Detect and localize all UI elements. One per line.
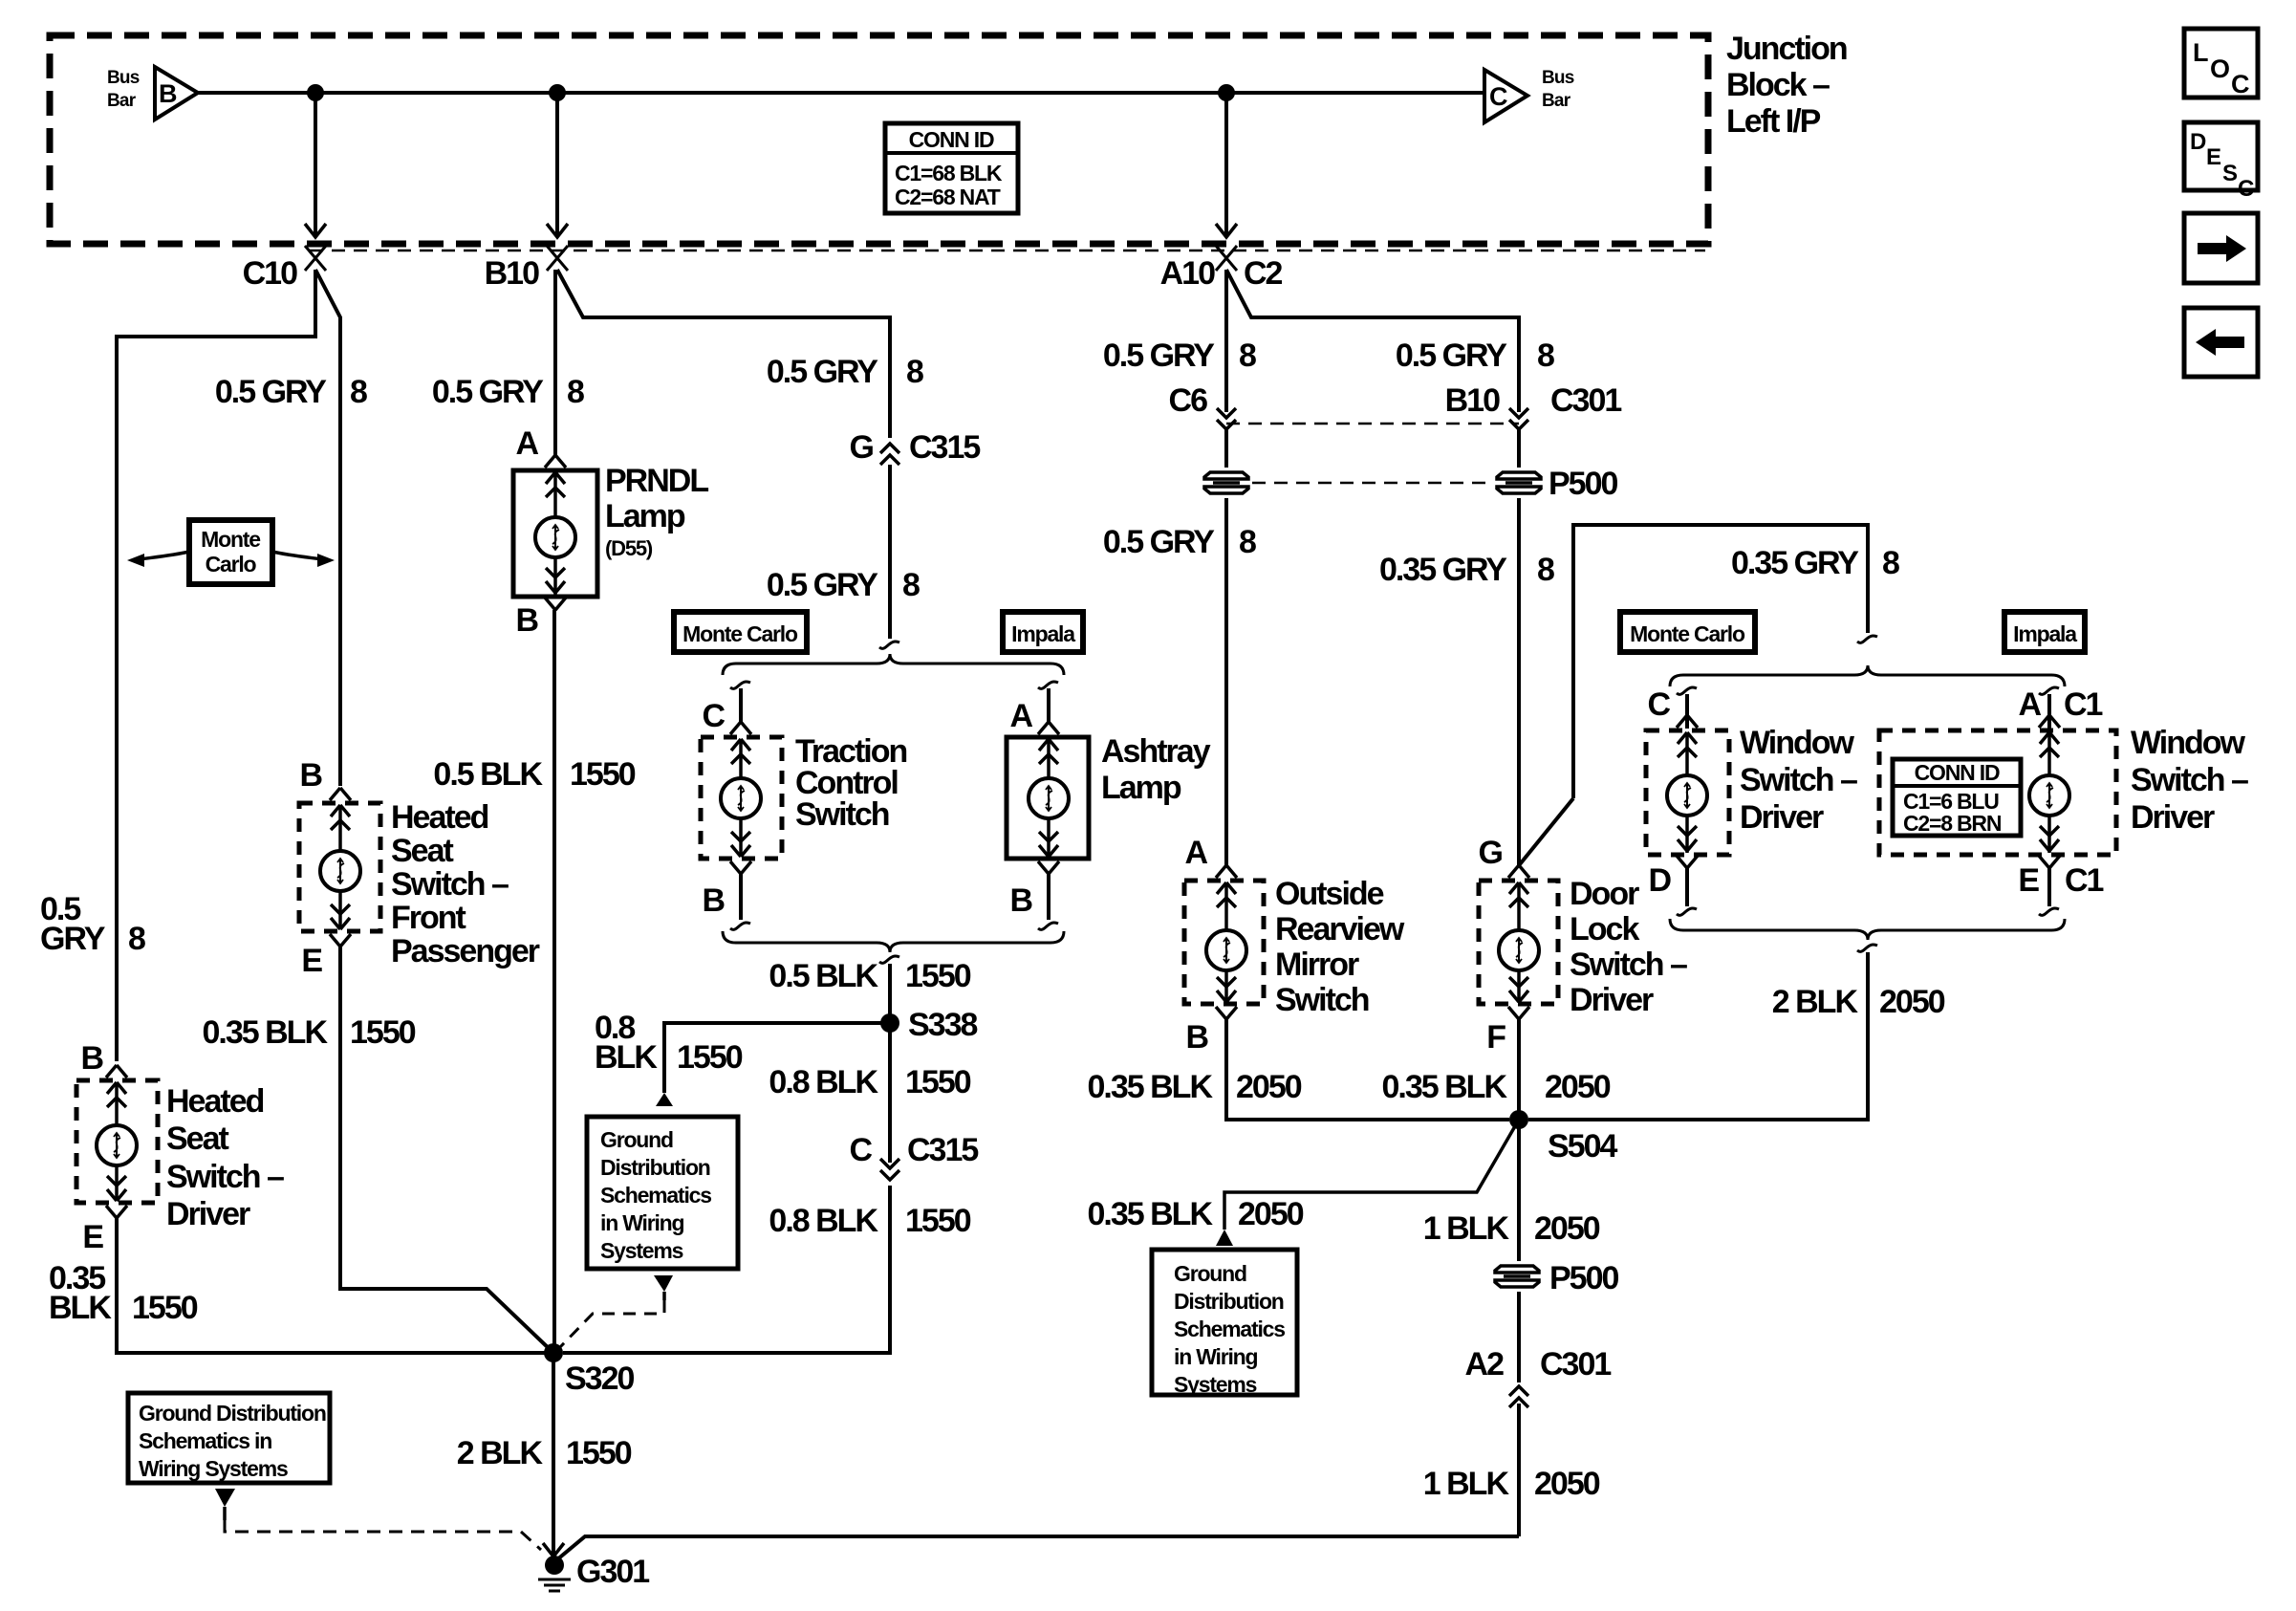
wire B10 connector to lamp	[553, 270, 557, 455]
svg-text:8: 8	[1239, 524, 1256, 560]
svg-text:Switch: Switch	[795, 796, 889, 833]
svg-text:Bar: Bar	[1542, 91, 1571, 111]
svg-text:Monte: Monte	[201, 527, 260, 552]
wire inside top	[338, 805, 342, 851]
svg-text:Monte Carlo: Monte Carlo	[1630, 621, 1745, 646]
svg-text:Window: Window	[1740, 725, 1855, 761]
svg-text:1550: 1550	[677, 1039, 743, 1076]
heated seat switch driver dashed box	[76, 1080, 158, 1203]
PRNDL lamp box	[513, 470, 597, 597]
svg-text:Driver: Driver	[166, 1196, 250, 1232]
ground distribution schematics box (right)	[1152, 1250, 1297, 1397]
junction dot C10 drop	[307, 84, 324, 101]
lamp circle	[1499, 930, 1539, 970]
wire diagonal C10 to front passenger branch	[315, 270, 340, 786]
lamp circle	[320, 851, 360, 891]
lamp circle	[1206, 930, 1246, 970]
lamp circle	[97, 1125, 137, 1165]
svg-text:A: A	[1184, 835, 1207, 871]
forward arrow icon	[2184, 213, 2258, 283]
wire brace to S504 run	[1528, 952, 1868, 1120]
svg-text:8: 8	[1537, 337, 1554, 374]
svg-text:B: B	[80, 1040, 103, 1077]
wire E down to brace	[2047, 868, 2051, 906]
svg-text:Systems: Systems	[600, 1238, 683, 1263]
Impala flag	[2004, 612, 2085, 652]
svg-text:Left I/P: Left I/P	[1726, 103, 1821, 140]
svg-text:C: C	[702, 698, 725, 734]
bus bar terminal C	[1484, 70, 1527, 122]
svg-text:0.8 BLK: 0.8 BLK	[769, 1064, 878, 1100]
svg-text:Systems: Systems	[1174, 1372, 1257, 1397]
svg-text:Switch –: Switch –	[1740, 762, 1857, 798]
svg-text:C6: C6	[1169, 382, 1208, 419]
svg-text:1550: 1550	[905, 958, 971, 994]
wire B down to S320	[552, 610, 556, 1353]
svg-text:GRY: GRY	[40, 921, 106, 957]
svg-text:B: B	[299, 757, 322, 794]
svg-text:Distribution: Distribution	[600, 1155, 710, 1180]
svg-text:Seat: Seat	[391, 833, 453, 869]
svg-text:F: F	[1486, 1019, 1505, 1056]
merge brace bottom	[1670, 919, 2065, 940]
svg-text:Driver: Driver	[1570, 982, 1654, 1018]
wire P500 to mirror switch	[1224, 498, 1228, 866]
svg-text:0.5 BLK: 0.5 BLK	[433, 756, 543, 793]
svg-text:0.5 GRY: 0.5 GRY	[432, 374, 544, 410]
diagonal into pin G	[1520, 798, 1573, 864]
svg-text:0.35 GRY: 0.35 GRY	[1379, 552, 1507, 588]
junction block dashed outline	[50, 35, 1708, 244]
wire to pin C	[730, 682, 750, 688]
Monte Carlo flag	[674, 612, 807, 652]
svg-text:0.5 GRY: 0.5 GRY	[1103, 524, 1215, 560]
svg-text:0.5 BLK: 0.5 BLK	[769, 958, 878, 994]
svg-text:2050: 2050	[1534, 1466, 1600, 1502]
svg-text:8: 8	[128, 921, 145, 957]
wire E down to S320	[117, 1218, 545, 1353]
ground G301	[545, 1556, 564, 1575]
connector B10	[547, 246, 568, 271]
LOC icon	[2184, 29, 2258, 98]
wire to pin A	[1038, 682, 1058, 688]
svg-text:A: A	[515, 425, 538, 462]
wire C301 down to G301 corner	[1517, 1404, 1521, 1536]
svg-text:C: C	[1647, 686, 1670, 723]
svg-text:1550: 1550	[350, 1014, 416, 1051]
Impala flag	[1003, 612, 1083, 652]
svg-text:C1: C1	[2065, 862, 2104, 899]
svg-text:Carlo: Carlo	[206, 552, 257, 577]
svg-text:S320: S320	[565, 1361, 634, 1397]
svg-text:B10: B10	[485, 255, 539, 292]
svg-text:C2=68 NAT: C2=68 NAT	[895, 185, 1001, 209]
lamp circle	[2029, 775, 2069, 816]
svg-text:B: B	[1009, 882, 1032, 919]
svg-text:8: 8	[567, 374, 584, 410]
svg-text:8: 8	[1882, 545, 1899, 581]
ground distribution schematics box (bottom left)	[128, 1393, 330, 1483]
svg-text:in Wiring: in Wiring	[1174, 1344, 1258, 1369]
svg-text:Rearview: Rearview	[1275, 911, 1405, 947]
svg-text:(D55): (D55)	[605, 536, 653, 560]
svg-text:P500: P500	[1549, 1260, 1618, 1296]
svg-text:S: S	[2222, 161, 2238, 186]
svg-text:0.35 BLK: 0.35 BLK	[203, 1014, 329, 1051]
svg-text:O: O	[2210, 54, 2229, 83]
wire B down to brace	[1047, 874, 1051, 920]
svg-text:C1: C1	[2064, 686, 2103, 723]
connector face dashed line	[310, 250, 1705, 252]
svg-text:1550: 1550	[132, 1290, 198, 1326]
CONN ID table (window switch)	[1893, 759, 2021, 836]
svg-text:0.35 BLK: 0.35 BLK	[1382, 1069, 1508, 1105]
bus bar terminal B	[155, 67, 198, 120]
svg-text:B: B	[1185, 1019, 1208, 1056]
svg-text:Switch: Switch	[1275, 982, 1369, 1018]
svg-text:Monte Carlo: Monte Carlo	[682, 621, 798, 646]
svg-text:0.35 BLK: 0.35 BLK	[1088, 1196, 1214, 1232]
svg-text:Distribution: Distribution	[1174, 1289, 1284, 1314]
svg-text:Wiring Systems: Wiring Systems	[139, 1456, 288, 1481]
svg-text:Lock: Lock	[1570, 911, 1639, 947]
svg-text:0.5 GRY: 0.5 GRY	[767, 567, 878, 603]
svg-text:8: 8	[902, 567, 920, 603]
node S504	[1509, 1110, 1528, 1129]
svg-text:A10: A10	[1160, 255, 1215, 292]
svg-text:0.35 BLK: 0.35 BLK	[1088, 1069, 1214, 1105]
wire: B10 drop	[555, 93, 559, 235]
svg-text:Impala: Impala	[1011, 621, 1075, 646]
svg-text:CONN ID: CONN ID	[909, 127, 994, 152]
split brace top (Monte Carlo / Impala)	[723, 654, 1064, 675]
svg-text:1550: 1550	[566, 1435, 632, 1471]
CONN ID table	[885, 123, 1018, 213]
svg-text:8: 8	[1537, 552, 1554, 588]
wire branch to window switches	[1573, 525, 1868, 798]
svg-text:C: C	[2231, 70, 2249, 98]
window switch driver dashed box (left)	[1646, 730, 1729, 855]
svg-text:G: G	[850, 429, 874, 466]
svg-text:Bus: Bus	[107, 68, 140, 88]
svg-text:0.8 BLK: 0.8 BLK	[769, 1203, 878, 1239]
svg-text:Switch –: Switch –	[1570, 947, 1687, 983]
svg-text:A2: A2	[1465, 1346, 1505, 1382]
split brace top	[1670, 665, 2065, 686]
dashed connector tie C6-C301	[1226, 423, 1519, 425]
window switch driver dashed box (right)	[1879, 730, 2116, 855]
lamp circle	[721, 778, 761, 818]
svg-text:CONN ID: CONN ID	[1915, 760, 2000, 785]
svg-text:G: G	[1479, 835, 1503, 871]
svg-text:in Wiring: in Wiring	[600, 1210, 684, 1235]
grommet P500 left	[1204, 472, 1248, 493]
node S338	[880, 1013, 899, 1033]
pin B chevrons	[330, 788, 351, 830]
traction control switch dashed box	[701, 737, 782, 859]
svg-text:S504: S504	[1548, 1128, 1617, 1165]
wire P500 to C301	[1517, 1292, 1521, 1382]
wire from A2 C301 leg to G301	[556, 1536, 1519, 1560]
bus bar wire	[198, 91, 1484, 95]
svg-text:Lamp: Lamp	[1101, 770, 1181, 806]
wire B10 diagonal and across	[557, 270, 890, 438]
svg-text:C301: C301	[1550, 382, 1621, 419]
svg-text:1550: 1550	[905, 1064, 971, 1100]
svg-text:C: C	[1489, 82, 1507, 111]
svg-text:2 BLK: 2 BLK	[457, 1435, 544, 1471]
svg-text:Driver: Driver	[1740, 799, 1824, 836]
svg-text:C: C	[849, 1132, 872, 1168]
svg-text:G301: G301	[576, 1554, 649, 1590]
svg-text:E: E	[2018, 862, 2039, 899]
svg-text:8: 8	[1239, 337, 1256, 374]
svg-text:E: E	[2206, 144, 2221, 170]
svg-text:C1=68 BLK: C1=68 BLK	[895, 161, 1003, 185]
svg-text:B: B	[515, 602, 538, 639]
svg-text:1550: 1550	[905, 1203, 971, 1239]
svg-text:Impala: Impala	[2013, 621, 2077, 646]
svg-text:C10: C10	[243, 255, 297, 292]
wire: A10 drop	[1224, 93, 1228, 235]
svg-text:Ground: Ground	[600, 1127, 673, 1152]
off-diagram arrow	[1216, 1230, 1233, 1246]
connector C10	[305, 246, 326, 271]
off-diagram arrow	[656, 1093, 673, 1106]
svg-text:A: A	[1009, 698, 1032, 734]
node S320	[544, 1343, 563, 1362]
svg-text:C2=8 BRN: C2=8 BRN	[1903, 811, 2002, 836]
svg-text:Passenger: Passenger	[391, 933, 540, 969]
wire D down to brace	[1685, 868, 1689, 906]
svg-text:Ground: Ground	[1174, 1261, 1246, 1286]
svg-text:Ground Distribution: Ground Distribution	[139, 1401, 326, 1426]
svg-text:8: 8	[350, 374, 367, 410]
svg-text:0.5 GRY: 0.5 GRY	[767, 354, 878, 390]
svg-text:BLK: BLK	[595, 1039, 658, 1076]
wire S338 down to C315	[888, 1023, 892, 1163]
svg-text:E: E	[82, 1219, 103, 1255]
svg-text:Front: Front	[391, 900, 466, 936]
svg-text:C301: C301	[1540, 1346, 1611, 1382]
dashed reference to S320	[560, 1300, 664, 1347]
svg-text:Switch –: Switch –	[2131, 762, 2248, 798]
door lock switch driver dashed box	[1479, 881, 1558, 1004]
wire C315 down to split	[888, 465, 892, 639]
svg-text:Junction: Junction	[1726, 31, 1847, 67]
svg-text:B: B	[702, 882, 725, 919]
lamp circle	[1029, 778, 1069, 818]
svg-text:B10: B10	[1445, 382, 1500, 419]
lamp circle	[1667, 775, 1707, 816]
ashtray lamp box	[1007, 737, 1089, 859]
svg-text:A: A	[2018, 686, 2041, 723]
wire A10 down	[1224, 270, 1228, 412]
dashed reference to G301	[225, 1520, 541, 1550]
svg-text:2050: 2050	[1545, 1069, 1611, 1105]
svg-text:2050: 2050	[1236, 1069, 1302, 1105]
svg-text:Bar: Bar	[107, 91, 137, 111]
svg-text:Block –: Block –	[1726, 67, 1830, 103]
grommet P500 lower	[1495, 1266, 1539, 1287]
DESC icon	[2184, 122, 2258, 202]
svg-text:PRNDL: PRNDL	[605, 463, 708, 499]
svg-text:1 BLK: 1 BLK	[1423, 1466, 1510, 1502]
svg-text:2050: 2050	[1238, 1196, 1304, 1232]
window switch driver (Impala) x=2144	[2039, 687, 2059, 694]
svg-text:Heated: Heated	[166, 1083, 264, 1120]
arrowhead into ground	[543, 1543, 564, 1557]
svg-text:0.5 GRY: 0.5 GRY	[1103, 337, 1215, 374]
wire B down to S504 run	[1226, 1019, 1509, 1120]
svg-text:C315: C315	[909, 429, 980, 466]
svg-text:Heated: Heated	[391, 799, 488, 836]
svg-text:Door: Door	[1570, 876, 1639, 912]
off-diagram arrow below box	[654, 1275, 673, 1292]
wire S338 to ground ref	[664, 1023, 890, 1093]
svg-text:Bus: Bus	[1542, 68, 1574, 88]
svg-text:C: C	[2238, 176, 2254, 202]
wire E down to S320	[340, 947, 553, 1353]
svg-text:BLK: BLK	[49, 1290, 112, 1326]
Monte Carlo flag	[1620, 612, 1755, 652]
svg-text:0.5 GRY: 0.5 GRY	[215, 374, 327, 410]
svg-text:Seat: Seat	[166, 1121, 228, 1157]
merge brace bottom	[723, 931, 1064, 952]
svg-text:P500: P500	[1549, 466, 1617, 502]
svg-text:E: E	[301, 943, 322, 979]
lamp circle	[535, 517, 575, 557]
svg-text:2050: 2050	[1534, 1210, 1600, 1247]
svg-text:D: D	[2190, 129, 2206, 155]
svg-text:Switch –: Switch –	[391, 866, 509, 903]
junction dot B10 drop	[549, 84, 566, 101]
wire F down to S504	[1517, 1019, 1521, 1120]
svg-text:Ashtray: Ashtray	[1101, 733, 1211, 770]
wire C6 to P500	[1224, 429, 1228, 468]
svg-text:Window: Window	[2131, 725, 2246, 761]
svg-text:C315: C315	[907, 1132, 978, 1168]
svg-text:Driver: Driver	[2131, 799, 2215, 836]
wire C301 to P500	[1517, 429, 1521, 468]
wire P500 to door lock G	[1517, 498, 1521, 866]
svg-text:Mirror: Mirror	[1275, 947, 1359, 983]
svg-text:1550: 1550	[570, 756, 636, 793]
wire B down to brace	[739, 874, 743, 920]
svg-text:Schematics in: Schematics in	[139, 1428, 271, 1453]
svg-text:0.35 GRY: 0.35 GRY	[1731, 545, 1859, 581]
svg-text:1 BLK: 1 BLK	[1423, 1210, 1510, 1247]
dashed tie P500	[1252, 482, 1493, 485]
svg-text:Lamp: Lamp	[605, 498, 685, 534]
svg-text:0.5 GRY: 0.5 GRY	[1396, 337, 1507, 374]
svg-text:Switch –: Switch –	[166, 1159, 284, 1195]
wire: C10 drop	[314, 93, 317, 235]
svg-text:8: 8	[906, 354, 923, 390]
outside rearview mirror switch dashed box	[1184, 881, 1264, 1004]
svg-text:S338: S338	[908, 1007, 977, 1043]
wire S504 down to P500	[1517, 1120, 1521, 1261]
off-diagram arrow below box	[215, 1489, 235, 1507]
svg-text:Schematics: Schematics	[1174, 1317, 1285, 1341]
wire brace to S338	[888, 964, 892, 1023]
svg-text:L: L	[2193, 38, 2208, 67]
wire C315 down to S320 run	[563, 1186, 890, 1353]
ground symbol	[538, 1579, 571, 1591]
svg-text:2050: 2050	[1879, 984, 1945, 1020]
heated seat switch front passenger dashed box	[299, 803, 380, 931]
svg-text:Outside: Outside	[1275, 876, 1384, 912]
ground distribution schematics box (middle)	[587, 1117, 738, 1269]
wire inside bottom	[338, 891, 342, 929]
svg-text:Schematics: Schematics	[600, 1183, 711, 1208]
svg-text:B: B	[159, 79, 177, 108]
svg-text:D: D	[1648, 862, 1671, 899]
grommet P500 right	[1497, 472, 1541, 493]
wire diagonal A10/C2 to right branch	[1226, 270, 1519, 412]
svg-text:C2: C2	[1244, 255, 1283, 292]
wire S320 to G301	[552, 1353, 555, 1558]
wire from C10 to left column	[117, 270, 315, 1061]
window switch driver (Monte Carlo) x=1765	[1677, 687, 1697, 694]
junction dot A10 drop	[1218, 84, 1235, 101]
back arrow icon	[2184, 308, 2258, 377]
svg-text:2 BLK: 2 BLK	[1772, 984, 1859, 1020]
wire S504 to ground ref drop	[1224, 1120, 1519, 1230]
connector A10 / C2	[1216, 246, 1237, 271]
Monte Carlo flag box	[127, 520, 335, 584]
